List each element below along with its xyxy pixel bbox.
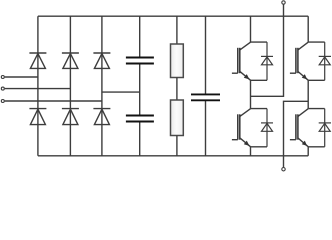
IGBT Q1 xyxy=(232,42,267,80)
wire: phase A line xyxy=(5,76,38,78)
wire: left leg emitter to bus xyxy=(250,147,252,156)
wire: resistor leg lower xyxy=(176,136,178,156)
wire: phase C line xyxy=(5,100,102,102)
wire: bottom output lead xyxy=(284,101,309,167)
input terminal phase B xyxy=(1,87,4,90)
output terminal top xyxy=(282,1,285,4)
input terminal phase A xyxy=(1,76,4,79)
diode D3 xyxy=(93,53,110,68)
wire: top DC bus xyxy=(38,15,308,17)
wire: rectifier leg 2 xyxy=(69,16,71,156)
wire: left leg midpoint vertical xyxy=(250,80,252,108)
resistor R1 xyxy=(171,44,184,78)
wire: rectifier leg 1 xyxy=(37,16,39,156)
output terminal bottom xyxy=(282,168,285,171)
wire: leg3 to capacitor midpoint xyxy=(102,91,140,93)
IGBT Q4 xyxy=(290,109,325,147)
diode D7 xyxy=(261,42,273,80)
wire: right leg midpoint vertical xyxy=(307,80,309,108)
wire: right leg collector feed xyxy=(307,16,309,42)
wire: rectifier leg 3 xyxy=(101,16,103,156)
diode D8 xyxy=(319,42,331,80)
diode D2 xyxy=(62,53,79,68)
wire: capacitor leg lower xyxy=(139,122,141,156)
diode D1 xyxy=(29,53,46,68)
IGBT Q3 xyxy=(232,109,267,147)
diode D10 xyxy=(319,109,331,147)
wire: capacitor leg upper xyxy=(139,16,141,57)
input terminal phase C xyxy=(1,100,4,103)
diode D6 xyxy=(93,109,110,125)
resistor R2 xyxy=(171,100,184,136)
wire: capacitor leg middle xyxy=(139,64,141,115)
wire: DC link capacitor leg lower xyxy=(205,101,207,156)
wire: resistor leg upper xyxy=(176,16,178,44)
wire: bottom DC bus xyxy=(38,155,308,157)
capacitor C1 xyxy=(126,58,154,64)
wire: right leg emitter to bus xyxy=(307,147,309,156)
IGBT Q2 xyxy=(290,42,325,80)
diode D5 xyxy=(62,109,79,125)
wire: left leg collector feed xyxy=(250,16,252,42)
wire: top output lead xyxy=(251,4,284,96)
wire: phase B line xyxy=(5,88,71,90)
diode D4 xyxy=(29,109,46,125)
capacitor C2 xyxy=(126,116,154,122)
wire: DC link capacitor leg upper xyxy=(205,16,207,94)
capacitor C3 xyxy=(191,94,220,100)
diode D9 xyxy=(261,109,273,147)
wire: resistor leg middle xyxy=(176,78,178,101)
